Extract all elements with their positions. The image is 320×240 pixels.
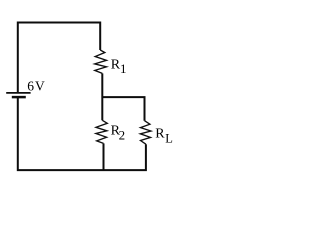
svg-text:V: V xyxy=(35,79,45,94)
svg-text:6: 6 xyxy=(27,79,34,94)
